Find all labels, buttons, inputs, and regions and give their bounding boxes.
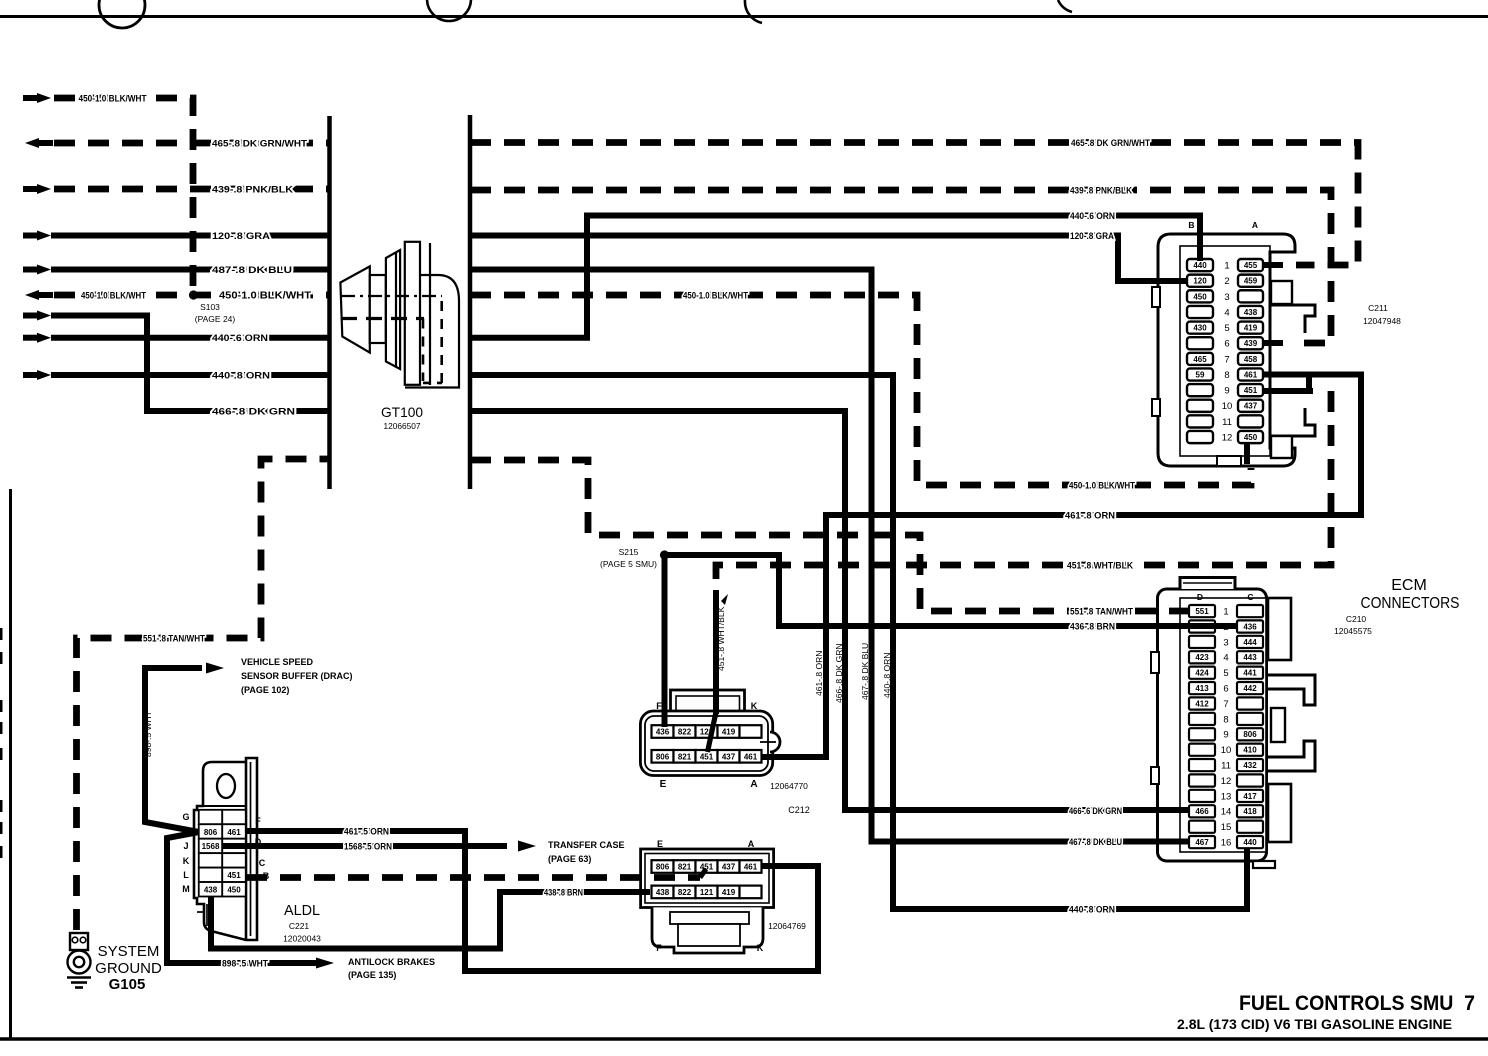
- svg-text:898-.5 WHT: 898-.5 WHT: [143, 711, 153, 757]
- ground G105 ring terminal: [68, 933, 91, 974]
- svg-text:467-.8 DK BLU: 467-.8 DK BLU: [860, 643, 870, 700]
- small arrow on 451 vertical label: [721, 594, 728, 605]
- C211 pin row 2: [1187, 275, 1213, 287]
- svg-text:806: 806: [204, 828, 218, 837]
- wire 440-.6 ORN left: [37, 333, 51, 343]
- svg-text:821: 821: [678, 863, 692, 872]
- svg-text:458: 458: [1244, 355, 1258, 364]
- svg-text:14: 14: [1221, 807, 1232, 818]
- svg-text:451-.8 WHT/BLK: 451-.8 WHT/BLK: [1067, 561, 1133, 571]
- svg-text:C: C: [1247, 592, 1253, 602]
- C210 pin row 16: [1189, 836, 1215, 848]
- wire 1568-.5 ORN to transfer case: [223, 843, 507, 849]
- svg-text:E: E: [660, 779, 667, 790]
- svg-text:822: 822: [678, 888, 692, 897]
- svg-text:438: 438: [1244, 308, 1258, 317]
- 12064769 pin bottom 5: [740, 886, 762, 899]
- svg-text:465-.8 DK GRN/WHT: 465-.8 DK GRN/WHT: [212, 139, 307, 150]
- svg-text:9: 9: [1224, 386, 1229, 397]
- svg-text:59: 59: [1196, 370, 1205, 379]
- svg-text:120-.8 GRA: 120-.8 GRA: [1070, 231, 1114, 241]
- svg-text:D: D: [1197, 592, 1203, 602]
- 12064769 pin top 5: [740, 860, 762, 873]
- C210 pin row 5: [1189, 667, 1215, 679]
- svg-text:G: G: [182, 812, 189, 822]
- svg-text:A: A: [1252, 220, 1258, 230]
- svg-text:438-.8 BRN: 438-.8 BRN: [544, 888, 583, 899]
- svg-text:450: 450: [1193, 292, 1207, 301]
- C211 pin row 1: [1187, 259, 1213, 271]
- svg-text:439: 439: [1244, 339, 1258, 348]
- svg-text:438: 438: [204, 886, 218, 895]
- wire 440-.8 ORN down to C210-C16: [470, 375, 1247, 909]
- svg-text:GROUND: GROUND: [95, 960, 162, 977]
- svg-text:461-.8 ORN: 461-.8 ORN: [1065, 511, 1115, 521]
- 12064769 pin bottom 3: [696, 886, 718, 899]
- C211 pin row 11: [1187, 415, 1213, 427]
- wire 465-.8 DK GRN/WHT left: [25, 138, 39, 148]
- svg-text:K: K: [757, 943, 764, 953]
- svg-text:120-.8 GRA: 120-.8 GRA: [212, 231, 270, 242]
- ALDL pin row 3: [199, 839, 223, 853]
- 12064769 pin bottom 2: [674, 886, 696, 899]
- svg-text:S103: S103: [200, 302, 220, 312]
- wire 439-.8 PNK/BLK to C211-A6: [470, 190, 1331, 343]
- svg-text:432: 432: [1243, 761, 1257, 770]
- svg-text:12064769: 12064769: [768, 921, 806, 931]
- svg-text:(PAGE 24): (PAGE 24): [195, 314, 236, 324]
- svg-text:SYSTEM: SYSTEM: [98, 943, 160, 960]
- 12064769 pin bottom 4: [718, 886, 740, 899]
- 12064769 pin bottom 1: [652, 886, 674, 899]
- C210 pin row 4: [1189, 651, 1215, 663]
- C211 pin row 7: [1187, 353, 1213, 365]
- svg-text:4: 4: [1224, 307, 1229, 318]
- C211 pin row 10: [1187, 400, 1213, 412]
- 12064769 pin top 4: [718, 860, 740, 873]
- wire 451-.8 WHT/BLK dashed route to C212: [716, 391, 1331, 592]
- svg-text:6: 6: [1224, 339, 1229, 350]
- ALDL pin row 4: [199, 853, 223, 867]
- wire 450-1.0 BLK/WHT to C211-B12 area: [470, 295, 1251, 485]
- svg-text:C211: C211: [1368, 303, 1388, 313]
- svg-text:806: 806: [1243, 730, 1257, 739]
- svg-text:451: 451: [227, 871, 241, 880]
- svg-text:S215: S215: [619, 547, 639, 557]
- wire 120-.8 GRA to C211-B2: [470, 236, 1188, 282]
- svg-text:12020043: 12020043: [283, 934, 321, 944]
- svg-text:440-.8 ORN: 440-.8 ORN: [212, 371, 270, 382]
- svg-text:437: 437: [722, 753, 736, 762]
- svg-text:K: K: [183, 856, 190, 866]
- svg-text:806: 806: [656, 753, 670, 762]
- wire 466-.8 DK GRN down to C210-D14: [470, 411, 1190, 810]
- svg-text:466-.8 DK GRN: 466-.8 DK GRN: [834, 643, 844, 703]
- svg-text:FUEL CONTROLS SMU 7: FUEL CONTROLS SMU 7: [1239, 992, 1475, 1015]
- svg-text:1568: 1568: [202, 842, 220, 851]
- svg-text:12: 12: [1222, 432, 1233, 443]
- wire 450-1.0 BLK/WHT top row with arrow: [37, 93, 51, 103]
- C212 pin bottom 4: [718, 750, 740, 763]
- C211 pin row 3: [1187, 290, 1213, 302]
- C210 pin row 10: [1189, 744, 1215, 756]
- C211 pin row 8: [1187, 368, 1213, 380]
- svg-text:450: 450: [1244, 433, 1258, 442]
- svg-text:430: 430: [1193, 324, 1207, 333]
- svg-text:443: 443: [1243, 653, 1257, 662]
- svg-text:822: 822: [678, 728, 692, 737]
- splice S215 wire to C210-C2 (436 BRN): [665, 555, 1239, 626]
- svg-text:424: 424: [1195, 669, 1209, 678]
- C212 pin top 3: [696, 725, 718, 738]
- C210 pin row 6: [1189, 682, 1215, 694]
- svg-text:SENSOR BUFFER (DRAC): SENSOR BUFFER (DRAC): [241, 671, 353, 681]
- svg-text:3: 3: [1223, 637, 1228, 648]
- binder ring arc 1: [99, 0, 145, 28]
- svg-text:466-.6 DK GRN: 466-.6 DK GRN: [1069, 806, 1122, 816]
- connector GT100 grommet body: [340, 242, 459, 388]
- svg-text:ALDL: ALDL: [284, 902, 320, 919]
- svg-text:466: 466: [1195, 807, 1209, 816]
- wire 438-.8 BRN ALDL-M to 12064769: [211, 892, 650, 949]
- svg-text:450-1.0 BLK/WHT: 450-1.0 BLK/WHT: [1069, 481, 1135, 491]
- ALDL pin row 1: [199, 810, 223, 824]
- svg-text:450: 450: [227, 886, 241, 895]
- svg-text:3: 3: [1224, 292, 1229, 303]
- svg-text:444: 444: [1243, 638, 1257, 647]
- C211 pin row 12: [1187, 431, 1213, 443]
- C212 pin top 5: [740, 725, 762, 738]
- svg-text:439-.8 PNK/BLK: 439-.8 PNK/BLK: [212, 185, 293, 196]
- svg-text:467-.8 DK BLU: 467-.8 DK BLU: [1069, 837, 1122, 847]
- svg-text:G105: G105: [109, 976, 146, 993]
- svg-text:C221: C221: [289, 921, 310, 931]
- connector C210 body: [1151, 578, 1315, 869]
- wire 487-.8 DK BLU left: [37, 265, 51, 275]
- svg-text:5: 5: [1223, 668, 1228, 679]
- svg-text:461: 461: [744, 863, 758, 872]
- svg-text:419: 419: [722, 888, 736, 897]
- 12064769 pin top 3: [696, 860, 718, 873]
- C211 A12 450 wire stub down: [1244, 443, 1250, 464]
- svg-text:412: 412: [1195, 699, 1209, 708]
- svg-text:F: F: [255, 816, 261, 826]
- C212 pin bottom 2: [674, 750, 696, 763]
- svg-text:898-.5 WHT: 898-.5 WHT: [222, 959, 268, 970]
- wire 120-.8 GRA left: [37, 231, 51, 241]
- svg-text:441: 441: [1243, 669, 1257, 678]
- C210 pin row 8: [1189, 713, 1215, 725]
- C210 pin row 7: [1189, 697, 1215, 709]
- svg-text:439-.8 PNK/BLK: 439-.8 PNK/BLK: [1070, 186, 1132, 196]
- wire 461-.8 ORN C211-A8 to C212: [762, 375, 1361, 758]
- svg-text:451: 451: [1244, 386, 1258, 395]
- svg-text:5: 5: [1224, 323, 1229, 334]
- C212 pin bottom 5: [740, 750, 762, 763]
- svg-text:461-.5 ORN: 461-.5 ORN: [344, 827, 389, 838]
- svg-text:VEHICLE SPEED: VEHICLE SPEED: [241, 657, 314, 667]
- svg-text:12066507: 12066507: [384, 421, 421, 431]
- C212 pin bottom 3: [696, 750, 718, 763]
- svg-text:8: 8: [1223, 714, 1228, 725]
- svg-text:417: 417: [1243, 792, 1257, 801]
- ALDL pin row 5: [199, 868, 223, 882]
- C211 pin row 5: [1187, 322, 1213, 334]
- svg-text:436-.8 BRN: 436-.8 BRN: [1070, 622, 1115, 632]
- svg-text:450-1.0 BLK/WHT: 450-1.0 BLK/WHT: [219, 291, 311, 302]
- svg-text:9: 9: [1223, 730, 1228, 741]
- svg-text:(PAGE 102): (PAGE 102): [241, 685, 289, 695]
- svg-text:487-.8 DK BLU: 487-.8 DK BLU: [212, 265, 292, 276]
- svg-text:418: 418: [1243, 807, 1257, 816]
- svg-text:F: F: [656, 943, 662, 953]
- svg-text:GT100: GT100: [381, 404, 423, 420]
- svg-text:C212: C212: [788, 805, 810, 815]
- connector C212 shell: [640, 690, 780, 776]
- svg-text:467: 467: [1195, 838, 1209, 847]
- svg-text:461: 461: [1244, 370, 1258, 379]
- svg-text:10: 10: [1222, 401, 1233, 412]
- splice S103 junction dot: [189, 290, 198, 299]
- C210 pin row 2: [1189, 620, 1215, 632]
- svg-text:436: 436: [656, 728, 670, 737]
- C210 pin row 12: [1189, 774, 1215, 786]
- svg-text:451: 451: [700, 753, 714, 762]
- svg-text:440: 440: [1193, 261, 1207, 270]
- C210 pin row 11: [1189, 759, 1215, 771]
- firewall right line: [468, 115, 473, 489]
- svg-text:7: 7: [1224, 354, 1229, 365]
- svg-text:413: 413: [1195, 684, 1209, 693]
- svg-text:551-.8 TAN/WHT: 551-.8 TAN/WHT: [143, 634, 205, 645]
- svg-text:1568-.5 ORN: 1568-.5 ORN: [344, 842, 392, 853]
- svg-text:821: 821: [678, 753, 692, 762]
- svg-text:419: 419: [1244, 324, 1258, 333]
- page edge tick marks: [0, 628, 3, 640]
- svg-text:B: B: [1188, 220, 1194, 230]
- svg-text:11: 11: [1221, 761, 1231, 772]
- firewall left line: [327, 116, 332, 489]
- 12064769 pin top 1: [652, 860, 674, 873]
- wire 487-.8 DK BLU down to C210-D16: [470, 270, 1190, 842]
- wire 440-.8 ORN left: [37, 370, 51, 380]
- wire 465-.8 DK GRN/WHT to C211-A1: [470, 143, 1358, 266]
- svg-text:465-.8 DK GRN/WHT: 465-.8 DK GRN/WHT: [1071, 138, 1150, 148]
- wire 451-.8 WHT/BLK solid drop into C212: [713, 590, 719, 714]
- 12064769 pin top 2: [674, 860, 696, 873]
- svg-text:440-.6 ORN: 440-.6 ORN: [1070, 211, 1115, 221]
- wire 451 dashed ALDL-B to 12064769: [246, 874, 700, 881]
- svg-text:2.8L (173 CID) V6 TBI GASOLINE: 2.8L (173 CID) V6 TBI GASOLINE ENGINE: [1177, 1017, 1452, 1032]
- svg-text:K: K: [751, 701, 758, 711]
- svg-text:465: 465: [1193, 355, 1207, 364]
- ALDL pin row 6: [199, 882, 223, 896]
- connector ALDL C221 body: [194, 758, 257, 940]
- svg-text:L: L: [183, 870, 189, 880]
- svg-text:13: 13: [1221, 791, 1232, 802]
- svg-text:M: M: [182, 884, 190, 894]
- svg-text:440-.8 ORN: 440-.8 ORN: [882, 653, 892, 698]
- svg-text:459: 459: [1244, 277, 1258, 286]
- svg-text:437: 437: [722, 863, 736, 872]
- connector C211 body: [1152, 234, 1315, 466]
- svg-text:ECM: ECM: [1391, 577, 1427, 594]
- svg-text:11: 11: [1222, 417, 1232, 428]
- svg-text:461-.8 ORN: 461-.8 ORN: [814, 651, 824, 696]
- svg-text:CONNECTORS: CONNECTORS: [1361, 595, 1460, 612]
- svg-text:8: 8: [1224, 370, 1229, 381]
- connector 12064769 shell: [641, 849, 774, 953]
- C210 pin row 15: [1189, 821, 1215, 833]
- svg-text:1: 1: [1223, 607, 1228, 618]
- wire 439-.8 PNK/BLK left: [37, 184, 51, 194]
- wire 451-.8 WHT/BLK C211-A9 stub: [1263, 388, 1313, 394]
- svg-text:(PAGE 63): (PAGE 63): [548, 854, 591, 864]
- wire 450-1.0 BLK/WHT row with splice S103: [25, 290, 39, 300]
- svg-text:423: 423: [1195, 653, 1209, 662]
- wire 440-.6 ORN to C211-B1: [470, 216, 1200, 338]
- svg-text:121: 121: [700, 888, 714, 897]
- svg-text:120: 120: [1193, 277, 1207, 286]
- C212 pin top 2: [674, 725, 696, 738]
- C212 pin bottom 1: [652, 750, 674, 763]
- svg-text:436: 436: [1243, 622, 1257, 631]
- svg-text:438: 438: [656, 888, 670, 897]
- page bottom edge line: [0, 1037, 1488, 1041]
- wire 551-.8 TAN/WHT dashed: ground G105 to C210-D1: [77, 459, 330, 930]
- svg-text:(PAGE 135): (PAGE 135): [348, 970, 396, 980]
- C210 pin row 13: [1189, 790, 1215, 802]
- svg-text:450-1.0 BLK/WHT: 450-1.0 BLK/WHT: [683, 291, 748, 301]
- svg-text:450-1.0 BLK/WHT: 450-1.0 BLK/WHT: [81, 291, 146, 302]
- svg-text:12064770: 12064770: [770, 781, 808, 791]
- svg-text:440: 440: [1243, 838, 1257, 847]
- svg-text:16: 16: [1221, 838, 1232, 849]
- svg-text:2: 2: [1224, 276, 1229, 287]
- svg-text:410: 410: [1243, 746, 1257, 755]
- svg-text:419: 419: [722, 728, 736, 737]
- svg-text:440-.8 ORN: 440-.8 ORN: [1069, 905, 1115, 915]
- binder ring arc 2: [427, 0, 471, 21]
- svg-text:TRANSFER CASE: TRANSFER CASE: [548, 840, 625, 850]
- splice S215 junction dot: [660, 550, 669, 559]
- C211 pin row 6: [1187, 337, 1213, 349]
- svg-text:A: A: [748, 839, 755, 849]
- svg-text:12047948: 12047948: [1363, 316, 1401, 326]
- svg-text:C210: C210: [1346, 614, 1367, 624]
- GT100 hidden-edge dashed lines: [341, 295, 442, 297]
- C211 pin row 4: [1187, 306, 1213, 318]
- wire 461-.5 ORN ALDL-F to 12064769 pin 461: [246, 831, 818, 971]
- wire 898-.5 WHT to antilock brakes: [167, 832, 316, 963]
- svg-text:7: 7: [1223, 699, 1228, 710]
- svg-text:442: 442: [1243, 684, 1257, 693]
- C212 pin top 1: [652, 725, 674, 738]
- svg-text:J: J: [183, 841, 188, 851]
- page top edge line: [0, 15, 1488, 18]
- svg-text:(PAGE 5 SMU): (PAGE 5 SMU): [600, 559, 657, 569]
- svg-text:10: 10: [1221, 745, 1232, 756]
- svg-text:461: 461: [744, 753, 758, 762]
- C210 pin row 14: [1189, 805, 1215, 817]
- wire row 7 bending down to 466 row: [37, 311, 51, 321]
- svg-text:806: 806: [656, 863, 670, 872]
- svg-text:12045575: 12045575: [1334, 626, 1372, 636]
- C211 pin row 9: [1187, 384, 1213, 396]
- svg-text:455: 455: [1244, 261, 1258, 270]
- svg-text:F: F: [656, 701, 662, 711]
- page left edge line: [9, 489, 12, 1040]
- binder ring arc 4: [1058, 0, 1072, 12]
- svg-text:A: A: [750, 779, 757, 790]
- svg-text:6: 6: [1223, 684, 1228, 695]
- svg-text:E: E: [657, 839, 663, 849]
- svg-text:466-.8 DK GRN: 466-.8 DK GRN: [212, 407, 295, 418]
- C212 pin top 4: [718, 725, 740, 738]
- svg-text:4: 4: [1223, 653, 1228, 664]
- svg-text:461: 461: [227, 828, 241, 837]
- wire S215 down to C212 pin 436: [662, 555, 668, 727]
- svg-text:ANTILOCK BRAKES: ANTILOCK BRAKES: [348, 957, 435, 967]
- C210 pin row 9: [1189, 728, 1215, 740]
- junction stub between A8 and A9 wires: [1306, 375, 1312, 392]
- ALDL pin row 2: [199, 824, 223, 838]
- svg-text:12: 12: [1221, 776, 1232, 787]
- svg-text:C: C: [259, 858, 266, 868]
- svg-text:450-1.0 BLK/WHT: 450-1.0 BLK/WHT: [79, 94, 147, 105]
- svg-text:437: 437: [1244, 402, 1258, 411]
- svg-text:551: 551: [1195, 607, 1209, 616]
- C210 pin row 3: [1189, 636, 1215, 648]
- svg-text:451-.8 WHT/BLK: 451-.8 WHT/BLK: [716, 606, 726, 671]
- svg-text:1: 1: [1224, 261, 1229, 272]
- svg-text:440-.6 ORN: 440-.6 ORN: [212, 333, 268, 344]
- wire 898-.5 WHT to vehicle speed buffer: [145, 668, 202, 832]
- svg-text:551-.8 TAN/WHT: 551-.8 TAN/WHT: [1070, 607, 1133, 617]
- C210 pin row 1: [1189, 605, 1215, 617]
- binder ring arc 3: [745, 0, 762, 23]
- ground symbol: [67, 976, 91, 979]
- svg-text:15: 15: [1221, 822, 1232, 833]
